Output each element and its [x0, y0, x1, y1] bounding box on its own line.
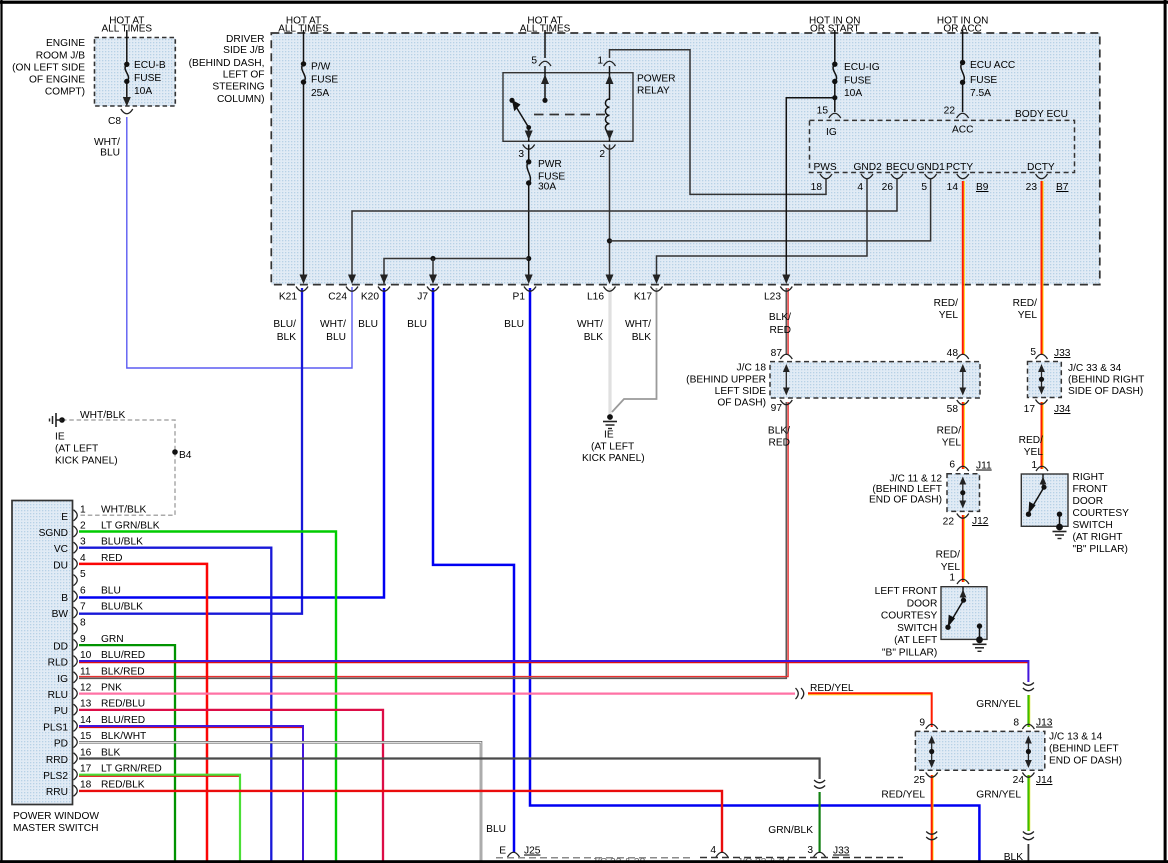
relay mechanical link (dashed): [534, 114, 605, 116]
fuse P/W FUSE 25A: [301, 61, 306, 66]
master switch pin 10: [74, 656, 78, 667]
wire WHT/BLU from C8 to C24: [127, 117, 352, 368]
J/C 18 pin 58 connector: [957, 400, 969, 405]
wire PNK from master switch pin 12 (RLU) to in-line connector: [79, 692, 795, 694]
svg-text:FUSE: FUSE: [844, 76, 871, 87]
switch box: RIGHT FRONT DOOR COURTESY SWITCH: [1021, 474, 1068, 526]
wire GRN/YEL from J/C 13 & 14 pin 24 (J14) down to in-line connector: [1029, 775, 1031, 831]
svg-text:POWER WINDOW: POWER WINDOW: [13, 811, 99, 822]
svg-text:22: 22: [944, 106, 956, 117]
right front door courtesy switch internals: [1042, 474, 1044, 487]
master switch pin 3: [74, 542, 78, 553]
ground IE (at left kick panel, center): [607, 414, 613, 420]
svg-text:LEFT SIDE: LEFT SIDE: [715, 386, 767, 397]
svg-text:J/C 13 & 14: J/C 13 & 14: [1049, 732, 1103, 743]
svg-text:J13: J13: [1036, 718, 1053, 729]
svg-text:SWITCH: SWITCH: [1073, 520, 1113, 531]
svg-text:(BEHIND LEFT: (BEHIND LEFT: [872, 484, 942, 495]
svg-text:P1: P1: [513, 292, 526, 303]
J/C 13 & 14 pin 24 connector J14: [1022, 773, 1034, 778]
wire WHT/BLK dashed from ground IE to splice B4 and master switch pin 1 (E): [62, 420, 175, 452]
svg-text:PWR: PWR: [538, 159, 562, 170]
master switch pin 18: [74, 785, 78, 796]
svg-text:RED/: RED/: [934, 298, 959, 309]
svg-text:B9: B9: [976, 182, 989, 193]
svg-text:17: 17: [80, 764, 92, 775]
svg-text:L16: L16: [587, 292, 604, 303]
bottom J/C pin 4 connector: [716, 852, 728, 857]
J/C 18 pin 87 connector: [780, 354, 792, 359]
svg-text:RED: RED: [768, 438, 790, 449]
svg-text:1: 1: [80, 504, 86, 515]
svg-text:15: 15: [80, 731, 92, 742]
svg-text:RLU: RLU: [48, 690, 68, 701]
svg-text:GRN/BLK: GRN/BLK: [768, 825, 813, 836]
master switch pin 2: [74, 526, 78, 537]
svg-text:(BEHIND LEFT: (BEHIND LEFT: [1049, 744, 1119, 755]
svg-text:"B" PILLAR): "B" PILLAR): [882, 648, 937, 659]
svg-text:BLU/BLK: BLU/BLK: [101, 537, 143, 548]
connector E / J25: [508, 852, 520, 857]
master switch pin 15: [74, 737, 78, 748]
svg-text:BLK/WHT: BLK/WHT: [101, 731, 146, 742]
svg-text:WHT/: WHT/: [625, 319, 651, 330]
svg-text:ENGINE: ENGINE: [46, 38, 85, 49]
svg-text:5: 5: [531, 56, 537, 67]
svg-text:K21: K21: [279, 292, 297, 303]
bottom J/C pin 3 connector J33: [814, 852, 826, 857]
pin 2 connector of power relay: [604, 145, 616, 150]
svg-text:GRN: GRN: [101, 634, 124, 645]
svg-text:ROOM J/B: ROOM J/B: [36, 50, 85, 61]
svg-text:DCTY: DCTY: [1027, 162, 1055, 173]
master switch pin 12: [74, 688, 78, 699]
svg-text:PNK: PNK: [101, 683, 122, 694]
svg-text:7.5A: 7.5A: [970, 88, 991, 99]
svg-text:FUSE: FUSE: [970, 75, 997, 86]
wire relay pin 3 to PWR fuse and P1: [528, 128, 530, 142]
svg-text:3: 3: [518, 149, 524, 160]
svg-text:P/W: P/W: [311, 62, 331, 73]
svg-text:25: 25: [914, 775, 926, 786]
J/C 18 internal path 87-97: [785, 369, 787, 391]
master switch pin 7: [74, 607, 78, 618]
connector P1: [524, 287, 536, 292]
svg-text:DD: DD: [53, 641, 68, 652]
wire relay pin 2 to L16: [609, 145, 611, 278]
svg-text:6: 6: [949, 460, 955, 471]
svg-text:LEFT OF: LEFT OF: [223, 69, 265, 80]
J/C 11 & 12 pin 6 connector J11: [957, 466, 969, 471]
svg-text:11: 11: [80, 666, 91, 677]
pin 4 GND2 connector: [861, 174, 873, 179]
in-line connector BLK to GRN/BLK: [814, 780, 825, 783]
node: junction P1/K20/J7: [526, 256, 531, 261]
svg-text:B: B: [61, 593, 68, 604]
svg-text:PCTY: PCTY: [946, 162, 973, 173]
svg-text:1: 1: [597, 56, 603, 67]
wire BLU from K20 to master switch pin 6 (B): [79, 288, 384, 598]
in-line connector on BLU/RED to GRN/YEL wire: [1023, 683, 1034, 686]
wire junction to BODY ECU GND1 pin 5: [610, 179, 931, 241]
wire LT GRN/RED from master switch pin 17 (PLS2) down: [79, 776, 240, 861]
svg-text:(ON LEFT SIDE: (ON LEFT SIDE: [12, 63, 85, 74]
junction block: driver side J/B (large dashed box): [271, 33, 1100, 285]
svg-text:18: 18: [80, 780, 92, 791]
J/C 33 & 34 pin 17 connector J34: [1036, 400, 1048, 405]
J/C 18 pin 48 connector: [957, 354, 969, 359]
pin 22 connector of BODY ECU (ACC): [957, 113, 969, 118]
wire RED/YEL from PCTY B9 to J/C 18 pin 48: [963, 181, 965, 355]
svg-text:GRN/YEL: GRN/YEL: [976, 699, 1021, 710]
fuse ECU ACC FUSE 7.5A: [960, 60, 965, 65]
svg-text:BLU: BLU: [358, 319, 378, 330]
svg-text:(AT LEFT: (AT LEFT: [55, 444, 98, 455]
svg-text:WHT/: WHT/: [577, 319, 603, 330]
wire RED/BLU from master switch pin 13 (PU) down: [79, 710, 383, 861]
ECU box: BODY ECU (dashed): [810, 120, 1075, 172]
J/C 18 internal path 48-58: [962, 369, 964, 391]
relay box: POWER RELAY: [503, 73, 633, 142]
wire GRN/YEL from connector to J/C 13 & 14 pin 8 (J13): [1029, 695, 1031, 727]
svg-text:SIDE OF DASH): SIDE OF DASH): [1068, 386, 1143, 397]
svg-text:J/C 33 & 34: J/C 33 & 34: [1068, 363, 1122, 374]
svg-text:RLD: RLD: [48, 658, 68, 669]
wire BLK/WHT from master switch pin 15 (PD) down: [79, 742, 481, 861]
fuse ECU-B FUSE 10A: [124, 62, 129, 67]
svg-text:(BEHIND DASH,: (BEHIND DASH,: [189, 58, 265, 69]
svg-text:"B" PILLAR): "B" PILLAR): [1073, 544, 1128, 555]
svg-text:12: 12: [80, 683, 92, 694]
svg-text:COURTESY: COURTESY: [881, 611, 938, 622]
svg-text:KICK PANEL): KICK PANEL): [582, 453, 645, 464]
svg-text:97: 97: [771, 403, 783, 414]
ground IE (at left kick panel, left): [59, 417, 65, 423]
J/C 18 pin 97 connector: [780, 400, 792, 405]
svg-text:(AT RIGHT: (AT RIGHT: [1073, 532, 1123, 543]
J/C 13 & 14 pin 8 connector J13: [1022, 724, 1034, 729]
svg-text:OR ACC: OR ACC: [943, 24, 981, 35]
svg-text:10: 10: [80, 650, 92, 661]
svg-text:1: 1: [949, 573, 955, 584]
svg-text:(AT LEFT: (AT LEFT: [894, 635, 937, 646]
pin 5 GND1 connector: [925, 174, 937, 179]
master switch pin 4: [74, 558, 78, 569]
svg-text:WHT/: WHT/: [320, 319, 346, 330]
svg-text:DOOR: DOOR: [1073, 496, 1104, 507]
svg-text:LT GRN/RED: LT GRN/RED: [101, 764, 162, 775]
svg-text:ECU ACC: ECU ACC: [970, 60, 1015, 71]
svg-text:MASTER SWITCH: MASTER SWITCH: [13, 823, 98, 834]
svg-text:STEERING: STEERING: [212, 82, 264, 93]
svg-text:BLK/: BLK/: [769, 312, 791, 323]
svg-text:BLU: BLU: [486, 824, 506, 835]
svg-text:14: 14: [80, 715, 92, 726]
master switch pin 13: [74, 704, 78, 715]
svg-text:BLU: BLU: [100, 148, 120, 159]
wire RED/YEL from DCTY B7 to J/C 33 & 34 pin 5: [1042, 181, 1044, 355]
svg-text:16: 16: [80, 747, 92, 758]
right front door courtesy switch pin 1 connector: [1036, 466, 1048, 471]
wire BODY ECU GND2 pin 4 to K17: [657, 179, 868, 277]
svg-text:ALL TIMES: ALL TIMES: [278, 24, 329, 35]
wire BLU/BLK from K21 to master switch pin 7 (BW): [79, 288, 302, 614]
master switch pin 5: [74, 575, 78, 586]
svg-text:IG: IG: [826, 127, 837, 138]
pin 1 connector of power relay: [604, 61, 616, 66]
node: ECU-IG junction: [832, 95, 837, 100]
svg-text:(AT LEFT: (AT LEFT: [591, 442, 634, 453]
J/C 13 & 14 pin 25 connector: [926, 773, 938, 778]
relay coil: [609, 66, 611, 100]
wire RED/YEL from J/C 13 & 14 pin 25 down to in-line connector and bottom: [932, 775, 934, 861]
svg-text:L23: L23: [764, 292, 781, 303]
node: junction L16/GND1: [607, 238, 612, 243]
wire relay pin 1 to BODY ECU PWS pin 18: [610, 50, 827, 195]
svg-text:PLS2: PLS2: [43, 771, 68, 782]
svg-text:22: 22: [943, 517, 955, 528]
svg-text:PWS: PWS: [814, 162, 837, 173]
switch box: POWER WINDOW MASTER SWITCH: [12, 501, 73, 805]
connector K21: [296, 287, 308, 292]
svg-text:BLK/RED: BLK/RED: [101, 666, 145, 677]
junction connector J/C 13 & 14 box: [915, 731, 1044, 770]
svg-text:RRU: RRU: [46, 787, 68, 798]
svg-text:58: 58: [947, 404, 959, 415]
master switch pin 17: [74, 769, 78, 780]
svg-text:J/C 18: J/C 18: [737, 363, 767, 374]
wire: HOT IN ON OR ACC through ECU ACC fuse to pin 22: [962, 30, 964, 63]
svg-text:J33: J33: [1054, 348, 1071, 359]
svg-text:5: 5: [1030, 347, 1036, 358]
svg-text:RED/: RED/: [1013, 298, 1038, 309]
in-line connector GRN/YEL to BLK: [1023, 832, 1034, 835]
svg-text:BLK: BLK: [101, 747, 120, 758]
svg-text:VC: VC: [54, 544, 68, 555]
svg-text:J11: J11: [976, 461, 992, 472]
svg-text:1: 1: [1031, 460, 1037, 471]
junction connector J/C 33 & 34 box: [1028, 362, 1062, 398]
connector C8: [121, 109, 133, 114]
svg-text:DU: DU: [53, 560, 68, 571]
svg-text:B4: B4: [179, 450, 192, 461]
connector K20: [378, 287, 390, 292]
wire BLK/RED from L23 to J/C 18 pin 87: [785, 288, 787, 355]
master switch pin 16: [74, 753, 78, 764]
svg-text:YEL: YEL: [941, 562, 961, 573]
left front door courtesy switch internals: [962, 587, 964, 600]
svg-text:J25: J25: [524, 846, 541, 857]
svg-text:FUSE: FUSE: [134, 73, 161, 84]
svg-text:YEL: YEL: [939, 310, 959, 321]
svg-text:OF DASH): OF DASH): [717, 398, 766, 409]
pin 14 PCTY connector B9: [957, 174, 969, 179]
svg-text:10A: 10A: [134, 86, 152, 97]
svg-text:RELAY: RELAY: [637, 86, 670, 97]
svg-text:GND1: GND1: [917, 162, 946, 173]
svg-text:IG: IG: [57, 674, 68, 685]
J/C 13 & 14 internal path 9-25: [931, 741, 933, 764]
svg-text:SGND: SGND: [39, 528, 68, 539]
wire BLK from in-line connector to bottom edge: [1027, 844, 1029, 861]
svg-text:OR START: OR START: [810, 24, 860, 35]
wire BLK/RED from J/C 18 pin 97 to master switch pin 11 (IG): [79, 402, 786, 678]
svg-text:26: 26: [882, 182, 894, 193]
svg-text:FRONT: FRONT: [1073, 484, 1108, 495]
wire RED/YEL from J/C 11 & 12 pin 22 to left front door courtesy switch pin 1: [963, 515, 965, 582]
wire GRN/BLK from in-line connector to bottom J/C pin 3: [818, 792, 820, 853]
connector C24: [346, 287, 358, 292]
svg-text:87: 87: [771, 348, 783, 359]
svg-text:COURTESY: COURTESY: [1073, 508, 1130, 519]
svg-text:RED/: RED/: [937, 426, 962, 437]
svg-text:9: 9: [919, 718, 925, 729]
relay movable contact (pin 5 side): [542, 98, 547, 103]
svg-text:3: 3: [80, 537, 86, 548]
svg-text:7: 7: [80, 602, 86, 613]
connector L23: [780, 287, 792, 292]
svg-text:BLU: BLU: [504, 319, 524, 330]
wire WHT/BLK from L16 to ground IE: [609, 288, 612, 414]
svg-text:K20: K20: [361, 292, 379, 303]
svg-text:END OF DASH): END OF DASH): [1049, 756, 1122, 767]
wire RED/YEL from J/C 33 & 34 pin 17 to right front door courtesy switch pin 1: [1042, 402, 1044, 469]
master switch pin 9: [74, 639, 78, 650]
svg-text:18: 18: [811, 182, 823, 193]
connector K17: [651, 287, 663, 292]
pin 18 PWS connector: [820, 174, 832, 179]
pin 23 DCTY connector B7: [1036, 174, 1048, 179]
svg-text:WHT/: WHT/: [94, 137, 120, 148]
svg-text:48: 48: [947, 348, 959, 359]
svg-text:SIDE J/B: SIDE J/B: [223, 45, 265, 56]
svg-text:RRD: RRD: [46, 755, 68, 766]
master switch pin 11: [74, 672, 78, 683]
svg-text:BLK: BLK: [277, 332, 296, 343]
svg-text:ACC: ACC: [952, 125, 974, 136]
svg-text:23: 23: [1026, 182, 1038, 193]
svg-text:10A: 10A: [844, 88, 862, 99]
svg-text:RED: RED: [769, 325, 791, 336]
svg-text:POWER: POWER: [637, 74, 676, 85]
svg-text:BLU: BLU: [101, 585, 121, 596]
svg-text:BLK: BLK: [584, 332, 603, 343]
svg-text:9: 9: [80, 634, 86, 645]
wire RED/YEL from J/C 18 pin 58 to J/C 11 & 12 pin 6: [963, 402, 965, 469]
svg-text:IE: IE: [604, 430, 614, 441]
wire BLU/RED from master switch pin 14 (PLS1) down: [79, 728, 303, 862]
svg-text:ALL TIMES: ALL TIMES: [102, 24, 153, 35]
splice B4: [172, 449, 178, 455]
pin 26 BECU connector: [891, 174, 903, 179]
svg-text:(BEHIND RIGHT: (BEHIND RIGHT: [1068, 375, 1144, 386]
svg-text:J12: J12: [972, 516, 989, 527]
svg-text:RED/BLK: RED/BLK: [101, 780, 145, 791]
svg-text:2: 2: [80, 521, 86, 532]
svg-text:5: 5: [921, 182, 927, 193]
svg-text:KICK PANEL): KICK PANEL): [55, 456, 118, 467]
svg-text:RED/: RED/: [936, 550, 961, 561]
in-line connector on RED/YEL below J/C 13 & 14: [926, 832, 937, 835]
svg-text:ECU-B: ECU-B: [134, 60, 166, 71]
svg-text:BLK/: BLK/: [768, 426, 790, 437]
wire BLU from P1 down and right to bottom: [530, 288, 979, 861]
svg-text:2: 2: [599, 149, 605, 160]
J/C 13 & 14 pin 9 connector: [926, 724, 938, 729]
junction connector J/C 11 & 12 box: [947, 474, 980, 512]
svg-text:RIGHT: RIGHT: [1073, 472, 1105, 483]
wire: HOT IN ON OR START through ECU-IG fuse to pin 15 and L23: [834, 30, 836, 64]
junction connector J/C 18 box: [770, 362, 980, 398]
svg-text:WHT/BLK: WHT/BLK: [80, 410, 125, 421]
svg-text:J/C 11 & 12: J/C 11 & 12: [890, 474, 943, 485]
wire LT GRN/BLK from master switch pin 2 (SGND) down: [79, 532, 336, 862]
svg-text:J14: J14: [1036, 775, 1053, 786]
svg-text:OF ENGINE: OF ENGINE: [29, 75, 85, 86]
svg-text:FUSE: FUSE: [311, 75, 338, 86]
svg-text:DOOR: DOOR: [907, 598, 938, 609]
master switch pin 6: [74, 591, 78, 602]
wire: HOT AT ALL TIMES feed through P/W fuse to K21: [303, 30, 305, 64]
svg-text:B7: B7: [1056, 182, 1069, 193]
svg-text:GRN/YEL: GRN/YEL: [976, 790, 1021, 801]
wire WHT/BLK from K17 to ground IE: [612, 288, 657, 412]
relay switch blade: [509, 98, 514, 103]
connector J7: [427, 287, 439, 292]
master switch pin 8: [74, 623, 78, 634]
wire: HOT AT ALL TIMES feed to power relay pin 5: [544, 30, 546, 58]
svg-text:25A: 25A: [311, 88, 329, 99]
svg-text:RED: RED: [101, 553, 123, 564]
switch box: LEFT FRONT DOOR COURTESY SWITCH: [941, 587, 987, 640]
svg-text:J34: J34: [1054, 404, 1071, 415]
wire BLU/RED from master switch pin 10 (RLD) to connector above J13: [79, 663, 1028, 682]
J/C 11 & 12 pin 22 connector J12: [957, 514, 969, 519]
in-line connector PNK to RED/YEL: [796, 688, 799, 699]
svg-text:BLU/BLK: BLU/BLK: [101, 602, 143, 613]
svg-text:ECU-IG: ECU-IG: [844, 62, 880, 73]
svg-text:RED/YEL: RED/YEL: [810, 683, 854, 694]
wire RED/YEL from in-line connector to J/C 13 & 14 pin 9: [808, 695, 932, 727]
svg-text:RED/: RED/: [1019, 435, 1044, 446]
svg-text:3: 3: [807, 845, 813, 856]
svg-text:BLU: BLU: [326, 332, 346, 343]
svg-text:BLU/RED: BLU/RED: [101, 650, 145, 661]
wire RED from master switch pin 4 (DU) down: [79, 564, 207, 861]
svg-text:14: 14: [947, 182, 959, 193]
wire BLK from master switch pin 16 (RRD) to in-line connector: [79, 759, 820, 780]
wire BLU/BLK from master switch pin 3 (VC) down: [79, 548, 271, 861]
svg-text:4: 4: [80, 553, 86, 564]
svg-text:BLU: BLU: [407, 319, 427, 330]
J/C 33 & 34 internal path: [1041, 369, 1043, 390]
svg-text:BLU/: BLU/: [273, 319, 296, 330]
svg-text:30A: 30A: [538, 182, 556, 193]
svg-text:PD: PD: [54, 739, 68, 750]
border frame: [0, 1, 1168, 4]
svg-text:GND2: GND2: [854, 162, 883, 173]
svg-text:IE: IE: [55, 432, 65, 443]
J/C 33 & 34 pin 5 connector J33: [1036, 354, 1048, 359]
svg-text:RED/BLU: RED/BLU: [101, 699, 145, 710]
svg-text:PLS1: PLS1: [43, 722, 68, 733]
svg-text:YEL: YEL: [1024, 447, 1044, 458]
svg-text:15: 15: [817, 106, 829, 117]
svg-text:BLU/RED: BLU/RED: [101, 715, 145, 726]
fuse ECU-IG FUSE 10A: [832, 61, 837, 66]
svg-text:J33: J33: [833, 846, 850, 857]
svg-text:24: 24: [1013, 775, 1025, 786]
